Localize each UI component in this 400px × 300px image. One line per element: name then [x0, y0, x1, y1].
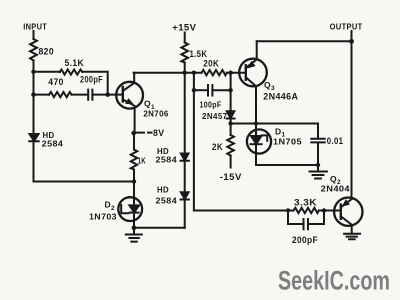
transistor Q1 circle — [116, 82, 143, 109]
wire V5 column — [193, 73, 195, 211]
svg-text:200pF: 200pF — [292, 235, 318, 245]
diode 2N457 — [227, 111, 235, 118]
wire 5.1K to drop — [82, 72, 107, 95]
wire cap to Q1 base — [92, 94, 122, 96]
wire HD column — [184, 73, 186, 228]
wire output column V9 — [351, 41, 353, 199]
svg-text:D2: D2 — [105, 200, 116, 212]
wire output rail H1 — [257, 40, 352, 42]
capacitor C 200pF top — [88, 90, 92, 100]
transistor Q1 emitter — [123, 100, 135, 134]
svg-text:+15V: +15V — [172, 22, 196, 32]
node -8V — [131, 131, 136, 136]
ground below Q2 — [344, 234, 360, 239]
transistor Q3 emitter arrow — [248, 62, 255, 68]
wire 470 to cap — [72, 94, 88, 96]
wire V6 top — [230, 73, 232, 112]
diode HD2584 left — [29, 134, 38, 141]
resistor R 820 — [30, 39, 37, 61]
svg-text:20K: 20K — [203, 59, 219, 69]
ground below 0.01 — [310, 165, 327, 179]
svg-text:8V: 8V — [153, 128, 165, 138]
svg-text:INPUT: INPUT — [23, 22, 47, 32]
svg-text:2584: 2584 — [156, 195, 178, 205]
wire H10 base row — [194, 210, 294, 212]
svg-text:200pF: 200pF — [80, 75, 103, 85]
transistor Q3 base bar — [245, 65, 247, 79]
wire 5.1K row — [34, 71, 61, 73]
transistor Q3 collector bottom — [246, 77, 256, 123]
node Q3 base rail — [228, 71, 232, 75]
diode HD2584 right upper — [181, 154, 189, 161]
svg-text:HD: HD — [157, 184, 169, 194]
capacitor C 0.01 — [311, 139, 324, 143]
svg-text:Q3: Q3 — [264, 80, 275, 92]
diode D2 L mark — [121, 205, 128, 213]
wire -8V dash — [136, 132, 152, 134]
svg-text:2N457: 2N457 — [202, 111, 228, 121]
svg-text:OUTPUT: OUTPUT — [330, 22, 363, 32]
capacitor C 200pF bottom — [304, 219, 309, 229]
wire H6 row — [34, 181, 135, 183]
transistor Q1 base bar — [122, 87, 124, 102]
wire 1.5K to H2 — [184, 63, 186, 73]
svg-text:2584: 2584 — [156, 154, 178, 164]
diode D1 bar — [251, 143, 262, 145]
node cap 0.01 bottom — [316, 163, 320, 167]
transistor Q2 emitter arrow — [343, 200, 350, 206]
transistor Q1 emitter arrow — [126, 99, 133, 104]
wire 200pF bottom row — [288, 223, 324, 225]
node 100pF right — [228, 88, 232, 92]
node OUTPUT junction — [349, 39, 354, 44]
wire H2 main rail — [134, 72, 202, 74]
wire H9 row — [256, 164, 318, 166]
diode D1 symbol — [251, 136, 261, 144]
wire 1K to D2 — [133, 170, 135, 228]
wire V11 drop — [287, 211, 289, 225]
svg-text:-15V: -15V — [220, 172, 242, 182]
wire 100pF left — [194, 89, 207, 91]
wire through D1 — [255, 124, 257, 166]
wire input column — [33, 61, 35, 182]
resistor R 2K — [227, 135, 234, 156]
resistor R 3.3K — [294, 208, 319, 213]
wire 2K to -15V — [230, 156, 232, 168]
transistor Q3 emitter top — [246, 41, 257, 68]
svg-text:2N446A: 2N446A — [263, 91, 298, 101]
svg-text:2584: 2584 — [42, 139, 64, 149]
diode D1 circle — [247, 129, 271, 153]
node 1.5K bottom — [183, 71, 187, 75]
node input/470 — [31, 92, 36, 97]
svg-text:1K: 1K — [138, 155, 147, 165]
node V5 top — [192, 71, 196, 75]
node 2N457 bottom — [228, 121, 232, 125]
node 3.3K left — [286, 208, 290, 212]
node Q3 collector/D1 — [254, 121, 258, 125]
svg-text:2K: 2K — [212, 142, 223, 152]
diode D1 7 mark — [262, 135, 267, 140]
node +15V stub — [184, 33, 186, 43]
svg-text:1N703: 1N703 — [89, 211, 117, 221]
wire 100pF right — [212, 89, 230, 91]
transistor Q2 collector bottom — [341, 216, 352, 233]
resistor R 1K — [131, 150, 137, 170]
wire D2 bottom row — [134, 227, 185, 229]
ground below D2 — [126, 228, 142, 242]
svg-text:100pF: 100pF — [200, 99, 222, 109]
capacitor C 100pF — [208, 85, 212, 96]
node Q2 base — [322, 208, 326, 212]
wire 20K to Q3 base — [227, 72, 246, 74]
transistor Q2 emitter top — [341, 199, 352, 207]
node Q1 base — [105, 92, 110, 97]
wire 3.3K to Q2 base — [319, 210, 341, 212]
svg-text:1.5K: 1.5K — [190, 49, 208, 59]
wire V6 mid — [230, 119, 232, 136]
svg-text:2N404: 2N404 — [321, 183, 350, 193]
node 100pF left — [192, 88, 196, 92]
resistor R 5.1K — [60, 70, 83, 75]
svg-text:1N705: 1N705 — [273, 137, 302, 147]
svg-text:470: 470 — [48, 77, 64, 87]
transistor Q2 circle — [334, 198, 362, 226]
diode D2 circle — [118, 197, 142, 221]
wire 470 row — [34, 94, 50, 96]
svg-text:2N706: 2N706 — [143, 109, 168, 119]
svg-text:SeekIC.com: SeekIC.com — [278, 266, 390, 296]
wire emitter to 1K — [133, 133, 135, 150]
diode D2 bar — [130, 212, 139, 214]
resistor R 20K — [202, 70, 227, 75]
wire V12 drop — [323, 211, 325, 225]
svg-text:0.01: 0.01 — [327, 136, 344, 146]
node OUTPUT stub — [351, 31, 353, 41]
wire H8 row — [231, 124, 318, 139]
svg-text:820: 820 — [39, 47, 55, 57]
diode D2 symbol — [129, 205, 139, 212]
node D2 bottom — [132, 225, 137, 230]
transistor Q1 collector — [123, 73, 134, 91]
transistor Q2 base bar — [340, 205, 342, 219]
transistor Q3 circle — [239, 59, 267, 87]
diode HD2584 right lower — [181, 192, 189, 199]
node 1K bottom — [132, 179, 136, 183]
wire cap to ground — [317, 143, 319, 166]
svg-text:5.1K: 5.1K — [65, 58, 85, 68]
node INPUT stub — [33, 31, 35, 39]
resistor R 1.5K — [181, 43, 188, 63]
resistor R 470 — [49, 92, 72, 97]
svg-text:3.3K: 3.3K — [294, 197, 317, 207]
node input/5.1K — [31, 70, 35, 74]
